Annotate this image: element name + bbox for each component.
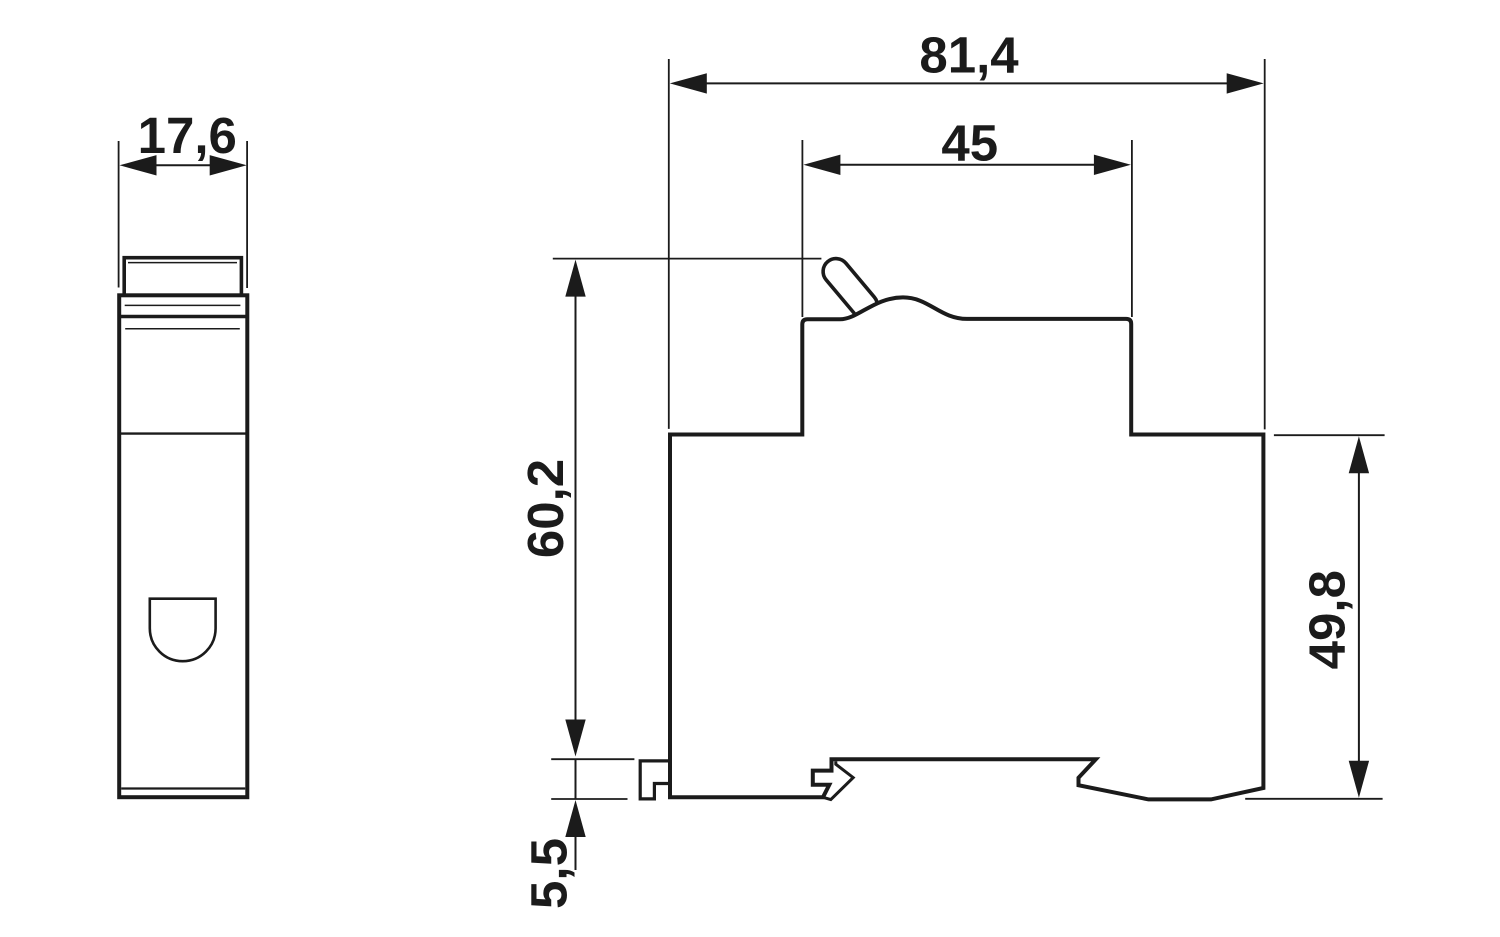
svg-text:60,2: 60,2 — [517, 459, 574, 558]
dimension line 49,8 — [1358, 470, 1360, 763]
svg-text:45: 45 — [941, 115, 998, 172]
housing outline (side view) — [670, 297, 1263, 799]
extension line bottom of 60,2 / top of 5,5 — [551, 758, 634, 760]
arrowhead 81,4 left — [670, 73, 707, 93]
extension line right of 45 — [1131, 140, 1133, 317]
extension line bottom of 5,5 — [551, 798, 627, 800]
extension line top of 60,2 — [553, 258, 822, 260]
svg-text:5,5: 5,5 — [521, 838, 578, 909]
dimension line segment between 60,2 and 5,5 — [575, 759, 577, 799]
arrowhead 17,6 right — [210, 155, 247, 175]
body thin line 2 — [125, 328, 240, 330]
toggle lever — [818, 253, 883, 323]
svg-text:49,8: 49,8 — [1298, 570, 1355, 669]
DIN-rail latch arrow — [823, 761, 854, 799]
housing body (front view) — [119, 295, 247, 797]
body thick line — [119, 315, 247, 318]
dimension line 45 — [838, 164, 1097, 166]
D-shaped marking window — [150, 599, 216, 662]
arrowhead 49,8 top — [1349, 436, 1369, 473]
dimension line 60,2 — [575, 294, 577, 721]
svg-text:81,4: 81,4 — [919, 26, 1019, 83]
arrowhead 45 right — [1094, 155, 1131, 175]
cap inner line — [128, 262, 237, 264]
arrowhead 81,4 right — [1227, 73, 1264, 93]
body thin line 1 — [125, 304, 241, 306]
extension line left of 17,6 — [118, 141, 120, 288]
extension line right of 17,6 — [246, 141, 248, 288]
svg-text:17,6: 17,6 — [138, 107, 237, 164]
extension line right of 81,4 — [1264, 59, 1266, 429]
extension line left of 45 — [801, 140, 803, 317]
dimension line 81,4 — [705, 82, 1229, 84]
mounting foot (bottom left) — [640, 761, 670, 799]
arrowhead 49,8 bottom — [1349, 761, 1369, 798]
dimension tail 5,5 — [575, 837, 577, 870]
body bottom line — [121, 787, 245, 789]
body divider line — [119, 432, 247, 434]
arrowhead 17,6 left — [120, 155, 157, 175]
extension line left of 81,4 — [668, 59, 670, 429]
extension line bottom of 49,8 — [1245, 798, 1382, 800]
dimension line 17,6 — [153, 164, 213, 166]
arrowhead 45 left — [803, 155, 840, 175]
arrowhead 60,2 bottom — [565, 720, 585, 757]
arrowhead 60,2 top — [565, 260, 585, 297]
housing cap (front view top) — [124, 258, 241, 296]
extension line top of 49,8 — [1274, 434, 1385, 436]
arrowhead 5,5 (pointing up) — [565, 800, 585, 837]
